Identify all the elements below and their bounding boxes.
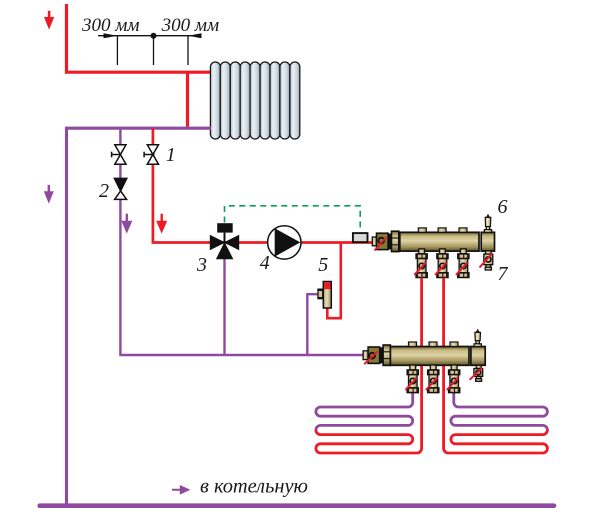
svg-text:300 мм: 300 мм [161, 15, 220, 36]
left floor loop purple part [316, 393, 413, 430]
flow arrow purple branch (down) [123, 214, 130, 231]
svg-text:4: 4 [260, 252, 270, 274]
air vent 6 on upper manifold [484, 214, 491, 233]
upper manifold outlet 3 [458, 249, 469, 278]
svg-text:в котельную: в котельную [200, 476, 308, 498]
manifold ring [388, 234, 391, 250]
lower manifold ring [380, 347, 383, 363]
lower manifold assembly [363, 342, 485, 365]
right floor loop purple part [451, 393, 548, 430]
lower manifold inlet fitting [363, 351, 368, 360]
radiator [210, 62, 299, 139]
svg-text:3: 3 [196, 254, 207, 276]
svg-text:1: 1 [166, 144, 176, 166]
manifold top port 1 [418, 228, 426, 232]
manifold top port 3 [459, 228, 467, 232]
shutoff valve on purple branch [112, 145, 126, 164]
lower manifold ball valve block [368, 347, 380, 363]
check valve 5 body [317, 282, 331, 309]
wire purple branch to mixing unit return [120, 128, 363, 355]
wire purple from check valve 5 to return [307, 294, 317, 355]
svg-text:2: 2 [99, 180, 109, 202]
left floor loop red part [316, 278, 422, 453]
lower manifold outlet 3 [449, 365, 460, 393]
manifold right cap section [481, 232, 494, 251]
manifold ball valve block [377, 233, 389, 249]
manifold top port 2 [438, 228, 446, 232]
wire purple from 3-way valve down [223, 252, 225, 355]
pump 4 [268, 226, 301, 259]
right floor loop red part [444, 278, 548, 453]
lower manifold top port 1 [409, 342, 417, 347]
lower manifold top port 2 [429, 342, 437, 347]
check valve 2 (filled top) [114, 178, 126, 199]
air vent on lower manifold [474, 329, 481, 347]
dimension line with arrows and center dot [98, 33, 202, 65]
manifold body [400, 232, 479, 251]
upper manifold outlet 2 [437, 249, 448, 278]
lower manifold body [390, 347, 469, 366]
wire red supply pipe from boiler [67, 4, 212, 72]
flow arrow purple left riser (down) [46, 185, 52, 201]
upper manifold assembly [372, 228, 494, 252]
wire red bypass to check valve 5 [327, 243, 341, 318]
manifold hex nut [392, 231, 399, 251]
wire purple return line and main riser [67, 128, 212, 506]
svg-text:5: 5 [318, 254, 328, 276]
flow arrow to boiler (right) [172, 487, 188, 494]
svg-text:300 мм: 300 мм [81, 15, 140, 36]
lower manifold outlet 2 [428, 365, 439, 393]
green dashed control line valve3 to sensor [225, 206, 361, 231]
sensor box on supply [353, 233, 368, 242]
manifold inlet fitting [372, 237, 376, 246]
lower manifold outlet 1 [407, 365, 418, 393]
drain valve 7 on upper manifold [484, 251, 493, 270]
upper manifold outlet 1 [416, 249, 427, 278]
svg-text:6: 6 [498, 196, 508, 218]
3-way mixing valve 3 [210, 223, 239, 259]
lower manifold right cap section [471, 347, 485, 366]
flow arrow red supply (down) [46, 11, 52, 26]
drain valve on lower manifold [474, 365, 483, 381]
wire red bypass drop near radiator [186, 72, 189, 128]
lower manifold top port 3 [450, 342, 458, 347]
flow arrow red branch (down) [158, 214, 165, 231]
wire main return to boiler [40, 503, 554, 508]
valve 1 on red branch [144, 145, 158, 164]
lower manifold hex nut [383, 345, 390, 365]
svg-text:7: 7 [498, 263, 509, 285]
wire red branch through valve 1 to mixing unit [153, 128, 372, 242]
